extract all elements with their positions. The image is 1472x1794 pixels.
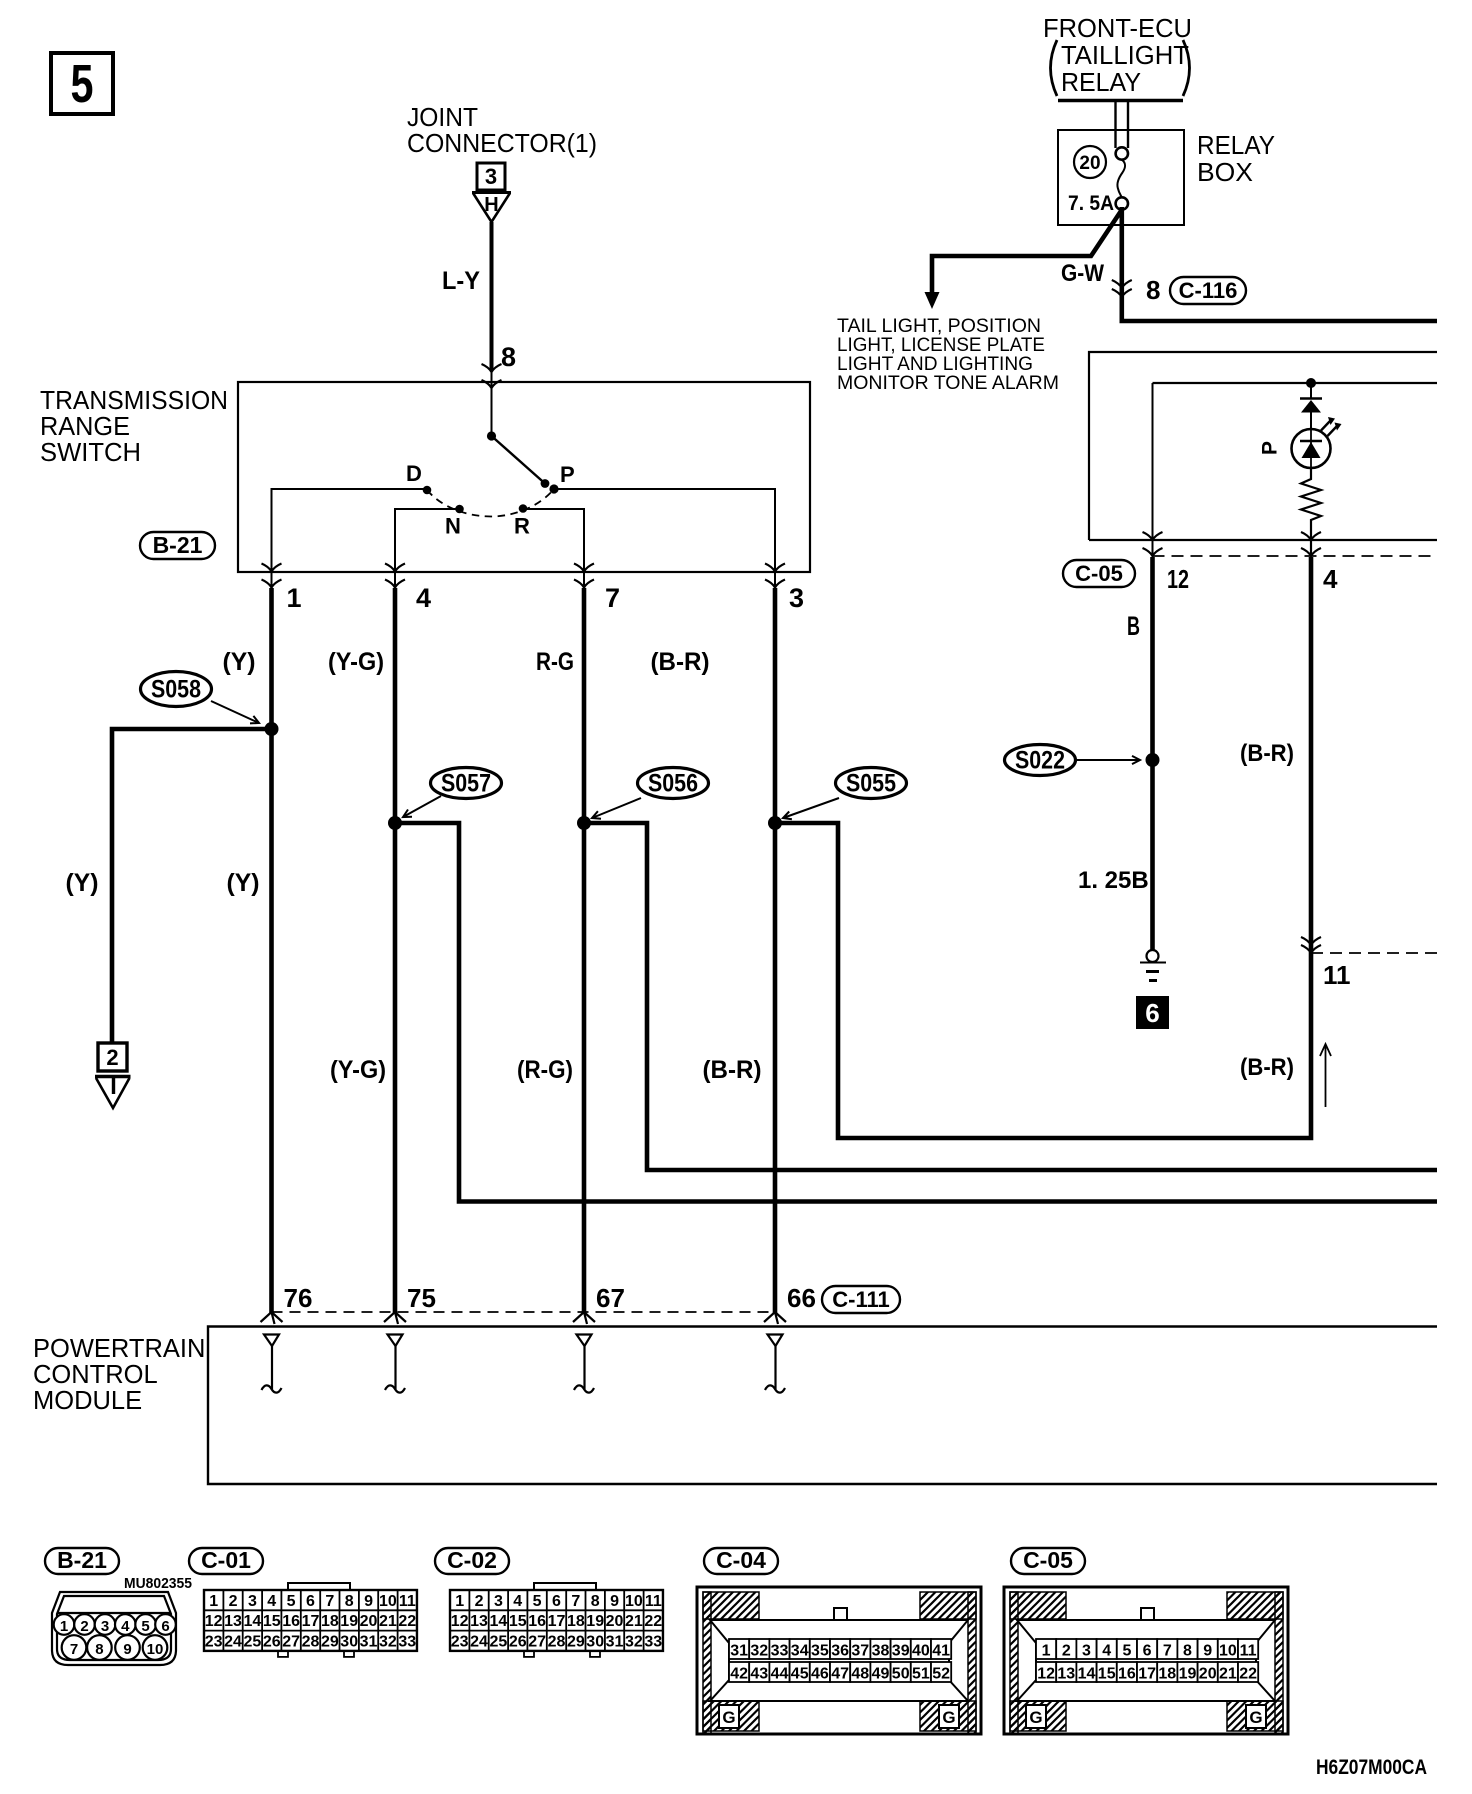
svg-text:11: 11 [645, 1593, 662, 1610]
svg-text:42: 42 [730, 1666, 748, 1683]
powertrain control module caption [33, 1335, 205, 1415]
svg-text:23: 23 [451, 1633, 469, 1650]
svg-text:26: 26 [263, 1633, 281, 1650]
svg-text:4: 4 [416, 583, 431, 613]
wire pin7 to PCM pin67 (R-G) [582, 588, 587, 1313]
svg-text:29: 29 [321, 1633, 339, 1650]
svg-text:19: 19 [340, 1613, 358, 1630]
svg-text:29: 29 [567, 1633, 585, 1650]
svg-text:3: 3 [101, 1618, 109, 1635]
svg-text:3: 3 [248, 1593, 257, 1610]
PCM pin 75 [384, 1283, 436, 1324]
svg-text:G: G [722, 1708, 735, 1727]
meter pin 12 lead [1152, 383, 1154, 556]
meter pin numbers 12 and 4 [1167, 564, 1338, 594]
svg-text:3: 3 [494, 1593, 503, 1610]
TRS pin 4 [385, 564, 431, 614]
svg-text:4: 4 [513, 1593, 522, 1610]
joint connector symbol 2 [95, 1043, 131, 1108]
transmission range switch box [238, 382, 810, 572]
svg-text:2: 2 [106, 1045, 118, 1070]
svg-text:6: 6 [1145, 998, 1159, 1028]
tail light note text [837, 316, 1059, 394]
combination meter inner box [1153, 382, 1438, 384]
svg-text:8: 8 [501, 342, 516, 372]
svg-text:G: G [942, 1708, 955, 1727]
svg-text:5: 5 [287, 1593, 296, 1610]
svg-text:BOX: BOX [1197, 159, 1253, 187]
svg-text:20: 20 [606, 1613, 624, 1630]
fuse number circled 20 [1074, 146, 1106, 178]
svg-text:4: 4 [267, 1593, 276, 1610]
wire contact R to pin 7 [522, 509, 584, 572]
svg-text:SWITCH: SWITCH [40, 439, 141, 467]
svg-text:C-05: C-05 [1023, 1547, 1073, 1573]
svg-text:TAILLIGHT: TAILLIGHT [1061, 42, 1189, 70]
splice S057 [431, 768, 502, 799]
svg-text:L-Y: L-Y [442, 267, 480, 295]
svg-text:MU802355: MU802355 [124, 1575, 192, 1592]
svg-text:1. 25B: 1. 25B [1078, 867, 1149, 894]
svg-text:8: 8 [1183, 1643, 1192, 1660]
svg-text:B-21: B-21 [153, 532, 203, 558]
svg-text:1: 1 [209, 1593, 218, 1610]
wire pin3 to PCM pin66 (B-R) [773, 588, 778, 1313]
wire pin4 to PCM pin75 (Y-G) [393, 588, 398, 1313]
svg-text:16: 16 [1118, 1666, 1136, 1683]
splice S058 [141, 672, 212, 707]
svg-text:B-21: B-21 [57, 1547, 107, 1573]
svg-text:76: 76 [284, 1283, 313, 1313]
svg-text:(Y): (Y) [223, 648, 256, 676]
svg-text:15: 15 [263, 1613, 281, 1630]
svg-text:11: 11 [1240, 1643, 1257, 1660]
wire contact P to pin 3 [553, 489, 775, 572]
svg-text:3: 3 [485, 164, 497, 189]
svg-text:C-01: C-01 [201, 1547, 251, 1573]
diode D [1300, 383, 1322, 429]
svg-text:19: 19 [586, 1613, 604, 1630]
ground symbol [1140, 950, 1166, 981]
svg-text:7: 7 [605, 583, 620, 613]
svg-text:9: 9 [123, 1641, 131, 1658]
svg-text:47: 47 [831, 1666, 849, 1683]
svg-text:21: 21 [1219, 1666, 1237, 1683]
svg-text:7: 7 [571, 1593, 580, 1610]
svg-text:38: 38 [872, 1643, 890, 1660]
svg-text:44: 44 [771, 1666, 789, 1683]
svg-text:6: 6 [161, 1618, 169, 1635]
splice S022 [1005, 745, 1076, 776]
svg-text:3: 3 [1082, 1643, 1091, 1660]
resistor [1301, 467, 1321, 556]
svg-text:4: 4 [1102, 1643, 1111, 1660]
svg-text:8: 8 [1146, 275, 1160, 305]
connector label B-21 (bottom) [45, 1548, 119, 1574]
connector label C-116 [1170, 277, 1246, 304]
wire contact N to pin 4 [395, 509, 459, 572]
svg-text:C-05: C-05 [1075, 561, 1123, 586]
svg-text:2: 2 [1062, 1643, 1071, 1660]
svg-text:15: 15 [1098, 1666, 1116, 1683]
TRS pin 3 [765, 564, 804, 614]
svg-text:(B-R): (B-R) [651, 648, 710, 676]
svg-text:20: 20 [360, 1613, 378, 1630]
svg-text:1: 1 [455, 1593, 464, 1610]
svg-text:S057: S057 [441, 770, 491, 798]
svg-text:9: 9 [364, 1593, 373, 1610]
PCM pin 67 [573, 1283, 625, 1324]
splice S055 [836, 768, 907, 799]
connector C-02 face [450, 1583, 663, 1657]
sheet number box 5 [51, 53, 113, 114]
node junction on meter bus [1306, 378, 1316, 388]
C-05 dashed connector line [1153, 555, 1438, 557]
svg-text:34: 34 [791, 1643, 809, 1660]
svg-text:MODULE: MODULE [33, 1387, 142, 1415]
connector 11 crossing [1301, 937, 1437, 990]
switch contact P [549, 484, 558, 493]
svg-text:7. 5A: 7. 5A [1068, 192, 1114, 215]
svg-text:23: 23 [205, 1633, 223, 1650]
svg-text:24: 24 [224, 1633, 242, 1650]
svg-text:(Y-G): (Y-G) [328, 648, 384, 676]
connector label C-111 [822, 1286, 900, 1313]
wire pin1 to PCM pin76 (Y) [269, 588, 274, 1313]
svg-text:12: 12 [1167, 564, 1189, 594]
svg-text:13: 13 [224, 1613, 242, 1630]
connector C-05 face [1004, 1587, 1288, 1734]
direction arrow up [1320, 1044, 1331, 1107]
svg-text:C-111: C-111 [832, 1287, 890, 1312]
svg-text:4: 4 [121, 1618, 130, 1635]
svg-text:17: 17 [1138, 1666, 1156, 1683]
branch wire S057 right-down-right [395, 823, 1437, 1202]
svg-text:5: 5 [533, 1593, 542, 1610]
pin 8 chevrons and label [482, 342, 517, 388]
svg-text:S056: S056 [648, 770, 698, 798]
svg-text:14: 14 [490, 1613, 508, 1630]
svg-text:28: 28 [302, 1633, 320, 1650]
PCM internal terminal symbol [574, 1335, 594, 1393]
connector C-04 label [704, 1548, 778, 1574]
svg-text:22: 22 [644, 1613, 662, 1630]
svg-text:37: 37 [851, 1643, 869, 1660]
svg-text:24: 24 [470, 1633, 488, 1650]
svg-text:45: 45 [791, 1666, 809, 1683]
svg-text:S055: S055 [846, 770, 896, 798]
PCM internal terminal symbol [262, 1335, 282, 1393]
svg-text:6: 6 [306, 1593, 315, 1610]
wire L-Y from joint connector to TRS pin 8 [490, 222, 494, 370]
connector C-05 label [1011, 1548, 1085, 1574]
svg-text:43: 43 [750, 1666, 768, 1683]
relay box [1058, 130, 1184, 225]
splice S056 [638, 768, 709, 799]
svg-text:19: 19 [1179, 1666, 1197, 1683]
svg-text:C-02: C-02 [447, 1547, 497, 1573]
svg-text:22: 22 [398, 1613, 416, 1630]
powertrain control module box [208, 1327, 1437, 1485]
svg-text:30: 30 [340, 1633, 358, 1650]
wire G-W to tail light circuits [932, 211, 1121, 294]
svg-text:36: 36 [831, 1643, 849, 1660]
svg-text:(B-R): (B-R) [1240, 1054, 1294, 1081]
svg-text:4: 4 [1323, 564, 1338, 594]
PCM pin 66 [764, 1283, 816, 1324]
svg-text:10: 10 [1219, 1643, 1237, 1660]
svg-text:31: 31 [360, 1633, 378, 1650]
svg-text:31: 31 [730, 1643, 748, 1660]
svg-text:2: 2 [229, 1593, 238, 1610]
joint connector symbol 3-H [472, 163, 511, 222]
TRS pin 1 [262, 564, 302, 614]
svg-text:14: 14 [1078, 1666, 1096, 1683]
PCM pin 76 [261, 1283, 313, 1324]
svg-text:32: 32 [625, 1633, 643, 1650]
svg-text:66: 66 [787, 1283, 816, 1313]
svg-text:3: 3 [789, 583, 804, 613]
svg-text:25: 25 [244, 1633, 262, 1650]
connector label B-21 [140, 532, 215, 559]
relay box caption [1197, 132, 1275, 187]
svg-text:G: G [1249, 1708, 1262, 1727]
LED indicator P [1292, 417, 1342, 468]
svg-text:10: 10 [147, 1641, 164, 1658]
combination meter outer box [1089, 352, 1437, 540]
svg-text:22: 22 [1239, 1666, 1257, 1683]
connector C-04 face [697, 1587, 981, 1734]
svg-text:POWERTRAIN: POWERTRAIN [33, 1335, 205, 1363]
svg-text:67: 67 [596, 1283, 625, 1313]
connector label C-05 [1063, 560, 1135, 587]
svg-text:CONNECTOR(1): CONNECTOR(1) [407, 128, 597, 158]
svg-text:H6Z07M00CA: H6Z07M00CA [1316, 1756, 1427, 1779]
svg-text:21: 21 [625, 1613, 643, 1630]
svg-text:5: 5 [1122, 1643, 1131, 1660]
svg-text:75: 75 [407, 1283, 436, 1313]
svg-text:52: 52 [932, 1666, 950, 1683]
connector C-02 label [435, 1548, 509, 1574]
svg-text:15: 15 [509, 1613, 527, 1630]
svg-text:18: 18 [1158, 1666, 1176, 1683]
svg-text:C-116: C-116 [1179, 278, 1238, 303]
svg-text:TRANSMISSION: TRANSMISSION [40, 387, 228, 415]
svg-text:S058: S058 [151, 676, 201, 704]
svg-text:17: 17 [302, 1613, 320, 1630]
FRONT-ECU (TAILLIGHT RELAY) caption [1043, 15, 1192, 101]
svg-text:18: 18 [567, 1613, 585, 1630]
svg-text:10: 10 [625, 1593, 643, 1610]
svg-text:12: 12 [451, 1613, 469, 1630]
svg-text:LIGHT AND LIGHTING: LIGHT AND LIGHTING [837, 354, 1033, 375]
branch wire S056 right-down-right [584, 823, 1437, 1170]
connector C-01 face [204, 1583, 417, 1657]
svg-text:27: 27 [282, 1633, 300, 1650]
svg-text:16: 16 [282, 1613, 300, 1630]
svg-text:9: 9 [610, 1593, 619, 1610]
svg-text:40: 40 [912, 1643, 930, 1660]
svg-text:49: 49 [872, 1666, 890, 1683]
svg-text:7: 7 [70, 1641, 78, 1658]
svg-text:20: 20 [1199, 1666, 1217, 1683]
svg-text:12: 12 [1037, 1666, 1055, 1683]
svg-text:41: 41 [932, 1643, 950, 1660]
svg-text:6: 6 [1143, 1643, 1152, 1660]
svg-text:RELAY: RELAY [1197, 132, 1275, 160]
svg-text:5: 5 [71, 54, 94, 114]
svg-text:13: 13 [1057, 1666, 1075, 1683]
svg-text:11: 11 [399, 1593, 416, 1610]
switch pivot and wiper to P [487, 431, 549, 488]
svg-text:1: 1 [60, 1618, 68, 1635]
svg-text:(Y): (Y) [227, 869, 260, 897]
connector C-01 label [189, 1548, 263, 1574]
joint connector (1) caption [407, 102, 597, 158]
svg-text:(Y-G): (Y-G) [330, 1056, 386, 1084]
svg-text:8: 8 [591, 1593, 600, 1610]
svg-text:21: 21 [379, 1613, 397, 1630]
svg-text:(B-R): (B-R) [1240, 740, 1294, 767]
svg-text:7: 7 [1163, 1643, 1172, 1660]
svg-text:2: 2 [80, 1618, 88, 1635]
svg-text:8: 8 [95, 1641, 103, 1658]
svg-text:H: H [484, 194, 498, 216]
svg-text:FRONT-ECU: FRONT-ECU [1043, 15, 1192, 43]
svg-text:46: 46 [811, 1666, 829, 1683]
svg-text:2: 2 [475, 1593, 484, 1610]
svg-text:25: 25 [490, 1633, 508, 1650]
svg-text:18: 18 [321, 1613, 339, 1630]
transmission range switch caption [40, 387, 228, 467]
svg-text:33: 33 [398, 1633, 416, 1650]
svg-text:11: 11 [1323, 960, 1351, 990]
svg-text:C-04: C-04 [716, 1547, 766, 1573]
svg-text:N: N [445, 514, 461, 539]
svg-text:6: 6 [552, 1593, 561, 1610]
svg-text:33: 33 [771, 1643, 789, 1660]
svg-text:51: 51 [912, 1666, 930, 1683]
PCM internal terminal symbol [385, 1335, 405, 1393]
svg-text:27: 27 [528, 1633, 546, 1650]
wire B to ground [1150, 557, 1155, 950]
svg-text:39: 39 [892, 1643, 910, 1660]
switch contact D [423, 486, 432, 495]
svg-text:50: 50 [892, 1666, 910, 1683]
svg-text:26: 26 [509, 1633, 527, 1650]
svg-text:RELAY: RELAY [1061, 69, 1141, 97]
svg-text:30: 30 [586, 1633, 604, 1650]
svg-text:32: 32 [750, 1643, 768, 1660]
svg-text:P: P [560, 462, 575, 487]
ground number box 6 [1136, 996, 1169, 1029]
svg-text:8: 8 [345, 1593, 354, 1610]
wire contact D to pin 1 [272, 489, 428, 572]
svg-text:9: 9 [1203, 1643, 1212, 1660]
svg-text:35: 35 [811, 1643, 829, 1660]
svg-text:P: P [1259, 441, 1282, 455]
svg-text:1: 1 [287, 583, 302, 613]
svg-text:CONTROL: CONTROL [33, 1361, 158, 1389]
branch wire S058 to joint connector (2) [112, 729, 272, 1043]
svg-text:48: 48 [851, 1666, 869, 1683]
wire fuse to C-116 and right edge [1122, 207, 1437, 321]
switch contact R [519, 504, 528, 513]
svg-text:LIGHT, LICENSE PLATE: LIGHT, LICENSE PLATE [837, 335, 1045, 356]
svg-text:20: 20 [1079, 153, 1100, 174]
PCM internal terminal symbol [765, 1335, 785, 1393]
svg-text:10: 10 [379, 1593, 397, 1610]
svg-text:S022: S022 [1015, 747, 1065, 775]
svg-text:D: D [406, 461, 422, 486]
branch wire S055 to C-05 pin4 [775, 557, 1311, 1138]
svg-text:12: 12 [205, 1613, 223, 1630]
svg-text:B: B [1127, 611, 1140, 641]
C-111 dashed connector line [272, 1311, 776, 1313]
svg-text:(Y): (Y) [66, 869, 99, 897]
svg-text:G-W: G-W [1061, 260, 1104, 287]
svg-text:16: 16 [528, 1613, 546, 1630]
meter pin 4 chevrons [1301, 532, 1321, 556]
switch travel dashed arc D-N-R-P [427, 489, 554, 517]
svg-text:28: 28 [548, 1633, 566, 1650]
svg-text:7: 7 [325, 1593, 334, 1610]
svg-text:32: 32 [379, 1633, 397, 1650]
svg-text:31: 31 [606, 1633, 624, 1650]
svg-text:17: 17 [548, 1613, 566, 1630]
svg-text:R-G: R-G [536, 648, 574, 676]
fuse 20 symbol [1116, 100, 1129, 210]
svg-text:33: 33 [644, 1633, 662, 1650]
svg-text:R: R [514, 514, 530, 539]
connector B-21 face [52, 1592, 176, 1665]
TRS pin 7 [574, 564, 620, 614]
C-116 crossing chevrons and pin 8 [1112, 275, 1161, 305]
svg-text:1: 1 [1042, 1643, 1051, 1660]
svg-text:TAIL LIGHT, POSITION: TAIL LIGHT, POSITION [837, 316, 1041, 337]
svg-text:RANGE: RANGE [40, 413, 130, 441]
contact labels D N R P [406, 461, 575, 539]
svg-text:13: 13 [470, 1613, 488, 1630]
svg-text:(R-G): (R-G) [517, 1056, 573, 1084]
switch contact N [455, 505, 464, 514]
svg-text:5: 5 [141, 1618, 149, 1635]
svg-text:(B-R): (B-R) [703, 1056, 762, 1084]
svg-text:G: G [1029, 1708, 1042, 1727]
svg-text:MONITOR TONE ALARM: MONITOR TONE ALARM [837, 373, 1059, 394]
svg-text:14: 14 [244, 1613, 262, 1630]
